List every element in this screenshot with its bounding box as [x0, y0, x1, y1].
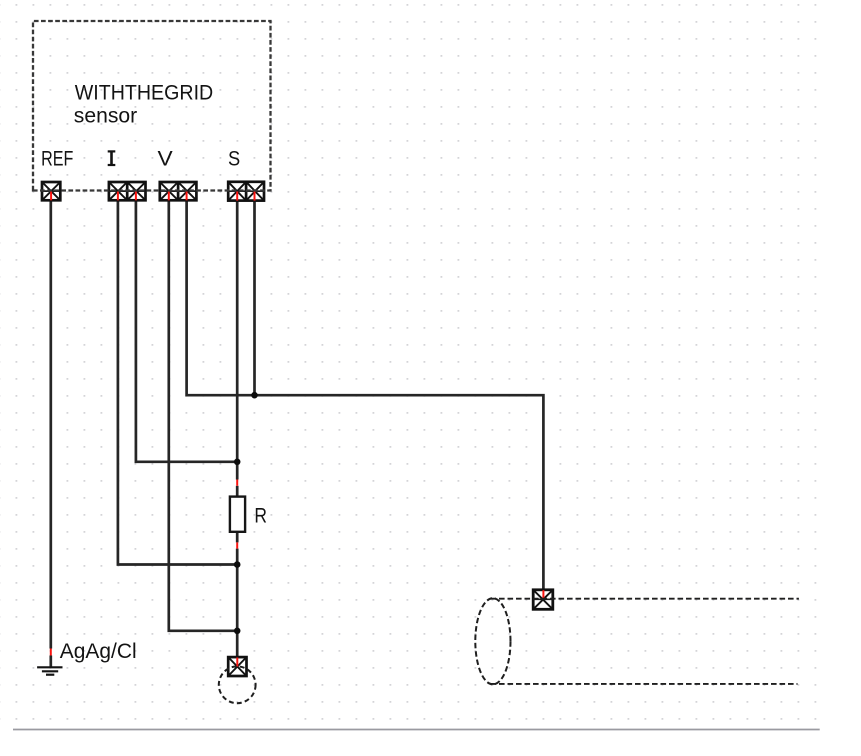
ground AgAg/Cl electrode symbol	[37, 667, 62, 674]
svg-text:V: V	[158, 148, 173, 171]
sensor enclosure dashed box WITHTHEGRID	[33, 21, 271, 191]
wire I-left pin down then right to node at x237	[118, 200, 237, 564]
reference cell dashed circle	[219, 666, 256, 703]
svg-text:S: S	[228, 148, 240, 171]
junction node I-left / S-left wire	[234, 561, 241, 568]
pin (red) electrode terminal	[236, 658, 238, 667]
pin (red) resistor top	[236, 480, 238, 486]
junction node I-right / S-left wire	[234, 459, 241, 466]
pipe body end ellipse (dashed)	[475, 598, 510, 684]
wire S-right pin down to node on long run	[253, 200, 256, 395]
terminal REF (crossed box)	[42, 182, 60, 200]
pins (red) I	[118, 192, 136, 201]
pipe bottom dashed line	[491, 683, 798, 685]
junction node V-left / S-left wire	[234, 628, 241, 635]
pin (red) of ground electrode	[50, 649, 52, 656]
pin label REF	[41, 148, 73, 171]
wire I-right pin down then right to node at y462	[136, 200, 237, 462]
pins (red) V	[169, 192, 187, 201]
electrode terminal (crossed box) above reference cell	[228, 657, 246, 676]
value label R	[254, 504, 267, 527]
resistor R	[230, 497, 245, 532]
junction node S-right / long run	[251, 392, 258, 399]
pipe terminal (crossed box)	[533, 590, 553, 610]
terminal I (double crossed box)	[109, 182, 146, 200]
label WITHTHEGRID	[75, 81, 213, 105]
wire V-left pin down then right to node at y631	[169, 200, 237, 631]
label AgAg/Cl	[60, 639, 137, 663]
pin (red) resistor bottom	[236, 542, 238, 548]
pin label I	[108, 151, 116, 165]
svg-text:R: R	[254, 504, 267, 527]
svg-text:REF: REF	[41, 148, 73, 171]
label sensor	[74, 103, 137, 127]
terminal S (double crossed box)	[228, 182, 264, 201]
wire resistor R bottom down to electrode terminal	[236, 532, 239, 658]
svg-text:sensor: sensor	[74, 103, 137, 127]
pin (red) pipe terminal	[542, 590, 544, 599]
pipe top dashed line	[491, 598, 799, 600]
svg-text:AgAg/Cl: AgAg/Cl	[60, 639, 137, 663]
wire V-right pin down, long run right, down to pipe terminal	[187, 200, 544, 590]
wire S-left pin down to resistor R top	[236, 200, 239, 497]
pin label V	[158, 148, 173, 171]
svg-text:WITHTHEGRID: WITHTHEGRID	[75, 81, 213, 105]
pin (red) REF	[50, 192, 52, 201]
pins (red) S	[237, 192, 254, 201]
terminal V (double crossed box)	[160, 182, 197, 200]
pin label S	[228, 148, 240, 171]
sheet border bottom line	[13, 729, 820, 731]
wire REF terminal to ground electrode	[49, 200, 52, 667]
